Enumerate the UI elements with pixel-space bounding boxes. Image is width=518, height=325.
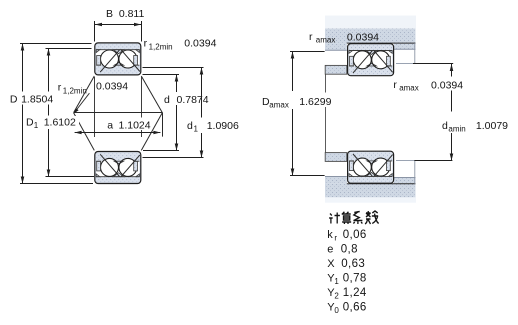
dimension da extension top (396, 63, 413, 65)
housing shoulder step top-left (325, 43, 347, 50)
dimension D line (22, 44, 24, 92)
contact line right lower (141, 113, 162, 151)
label D1 1.6102 (25, 116, 80, 129)
dimension D1 extension top (46, 48, 92, 50)
housing bore line bottom (347, 183, 416, 185)
dimension Damax line (292, 52, 294, 92)
housing band right edge leader top (414, 43, 416, 64)
计 (330, 214, 332, 216)
housing step bottom-right (394, 178, 416, 184)
svg-text:r: r (334, 233, 337, 242)
svg-text:0,63: 0,63 (341, 258, 365, 270)
housing shoulder step bottom-left (325, 177, 347, 184)
housing band top (325, 29, 416, 44)
svg-text:1.6299: 1.6299 (299, 96, 331, 108)
label damin 1.0079 (441, 117, 509, 132)
svg-text:1.0079: 1.0079 (476, 120, 508, 132)
svg-text:B 0.811: B 0.811 (106, 8, 144, 20)
svg-text:amax: amax (316, 36, 336, 45)
svg-text:amax: amax (399, 84, 419, 93)
svg-text:e: e (327, 243, 333, 255)
housing step top-right (394, 43, 416, 49)
contact line left lower (74, 113, 95, 151)
svg-text:1: 1 (34, 121, 39, 130)
label d1 1.0906 (186, 119, 241, 133)
label d 0.7874 (163, 93, 210, 105)
dimension D1 extension bottom (46, 176, 95, 178)
svg-text:0: 0 (334, 306, 339, 315)
svg-text:r: r (309, 31, 313, 43)
svg-text:0,78: 0,78 (343, 272, 367, 284)
svg-text:D: D (10, 94, 18, 106)
bearing section lower (mirrored) (95, 152, 141, 184)
svg-text:r: r (393, 79, 397, 91)
housing bore line top (347, 42, 416, 44)
pressure centre line (74, 112, 163, 114)
label a 1.1024 (106, 118, 153, 131)
dimension D extension bottom (20, 183, 93, 185)
bearing section upper (95, 43, 141, 75)
svg-text:d: d (164, 94, 170, 106)
housing wash top (325, 16, 416, 29)
svg-text:1: 1 (194, 125, 199, 134)
svg-text:1,24: 1,24 (343, 287, 367, 299)
svg-text:0.0394: 0.0394 (96, 81, 128, 93)
dimension d1 extension bottom (143, 157, 204, 159)
svg-text:0.0394: 0.0394 (347, 32, 379, 44)
label D 1.8504 (9, 93, 56, 105)
svg-text:1.0906: 1.0906 (207, 120, 239, 132)
dimension d extension top (143, 74, 180, 76)
svg-text:0.7874: 0.7874 (177, 94, 209, 106)
extension line bearing right edge (141, 77, 143, 137)
dimension Damax extension bottom (290, 175, 325, 177)
tick a right (162, 113, 164, 137)
housing band right edge leader bottom (414, 161, 416, 184)
svg-text:r: r (58, 82, 62, 94)
svg-text:0.0394: 0.0394 (431, 80, 463, 92)
dimension Damax extension top (290, 51, 325, 53)
contact line left upper (74, 76, 95, 113)
svg-text:d: d (187, 120, 193, 132)
svg-text:1.8504: 1.8504 (21, 94, 53, 106)
bearing section upper (mounted) (348, 44, 394, 76)
shaft shoulder top (325, 65, 347, 74)
svg-text:0,06: 0,06 (343, 229, 367, 241)
svg-text:X: X (327, 258, 335, 270)
dimension d extension bottom (143, 150, 179, 152)
label Damax 1.6299 (261, 93, 334, 108)
shaft surface line (325, 74, 327, 152)
svg-text:1: 1 (334, 277, 339, 286)
contact line right upper (141, 76, 162, 113)
dimension d1 extension top (143, 67, 204, 69)
dimension B extension lines (94, 21, 96, 42)
dimension d line (176, 75, 178, 93)
svg-text:2: 2 (334, 291, 339, 300)
系 (354, 212, 360, 221)
dimension damin extension bottom (396, 160, 414, 162)
svg-text:1.1024: 1.1024 (119, 120, 151, 132)
svg-text:0.0394: 0.0394 (184, 38, 216, 50)
housing band bottom (325, 184, 416, 198)
svg-text:r: r (144, 38, 148, 50)
bearing section lower (mounted, mirrored) (348, 151, 394, 183)
svg-text:1,2min: 1,2min (149, 43, 173, 52)
extension line bearing left edge (94, 77, 96, 137)
svg-text:0,8: 0,8 (341, 243, 358, 255)
dimension a line with arrows (75, 132, 161, 134)
svg-text:a: a (107, 120, 113, 132)
heading 计算系数 (drawn strokes) (329, 211, 379, 224)
dimension D1 line (48, 49, 50, 92)
svg-text:amax: amax (269, 101, 289, 110)
svg-text:amin: amin (448, 125, 465, 134)
shaft shoulder bottom (325, 153, 347, 162)
svg-text:d: d (442, 120, 448, 132)
dimension D extension top (20, 43, 92, 45)
svg-text:1,2min: 1,2min (63, 87, 87, 96)
数 (366, 211, 371, 217)
算 (342, 212, 351, 214)
dimension d1 line (201, 68, 203, 118)
housing wash bottom (325, 197, 416, 203)
dimension B line with arrows (95, 24, 141, 26)
svg-text:0,66: 0,66 (343, 301, 367, 313)
svg-text:1.6102: 1.6102 (44, 117, 76, 129)
svg-text:k: k (327, 229, 333, 241)
dimension damin line (451, 64, 453, 77)
